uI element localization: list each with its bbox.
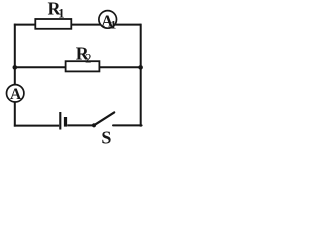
wire middle branch (R2): [15, 66, 141, 68]
wire left vertical: [14, 24, 16, 127]
resistor R2: [66, 61, 100, 71]
battery short plate: [64, 117, 67, 127]
wire right vertical: [140, 24, 142, 127]
svg-text:S: S: [101, 127, 111, 147]
svg-text:A: A: [10, 86, 22, 103]
switch S lever: [94, 112, 114, 125]
wire battery to switch: [67, 124, 92, 126]
node junction right: [138, 65, 143, 70]
ammeter A: [7, 85, 24, 102]
wire top branch: [14, 24, 141, 26]
wire switch to bottom right: [113, 124, 142, 126]
node junction left: [13, 65, 18, 70]
svg-text:1: 1: [58, 6, 64, 20]
wire bottom left to battery: [14, 125, 59, 127]
ammeter A1: [99, 11, 117, 29]
svg-text:2: 2: [85, 50, 92, 65]
switch pivot node: [92, 123, 96, 127]
svg-text:1: 1: [110, 17, 116, 31]
resistor R1: [35, 19, 71, 29]
battery long plate: [59, 112, 61, 130]
